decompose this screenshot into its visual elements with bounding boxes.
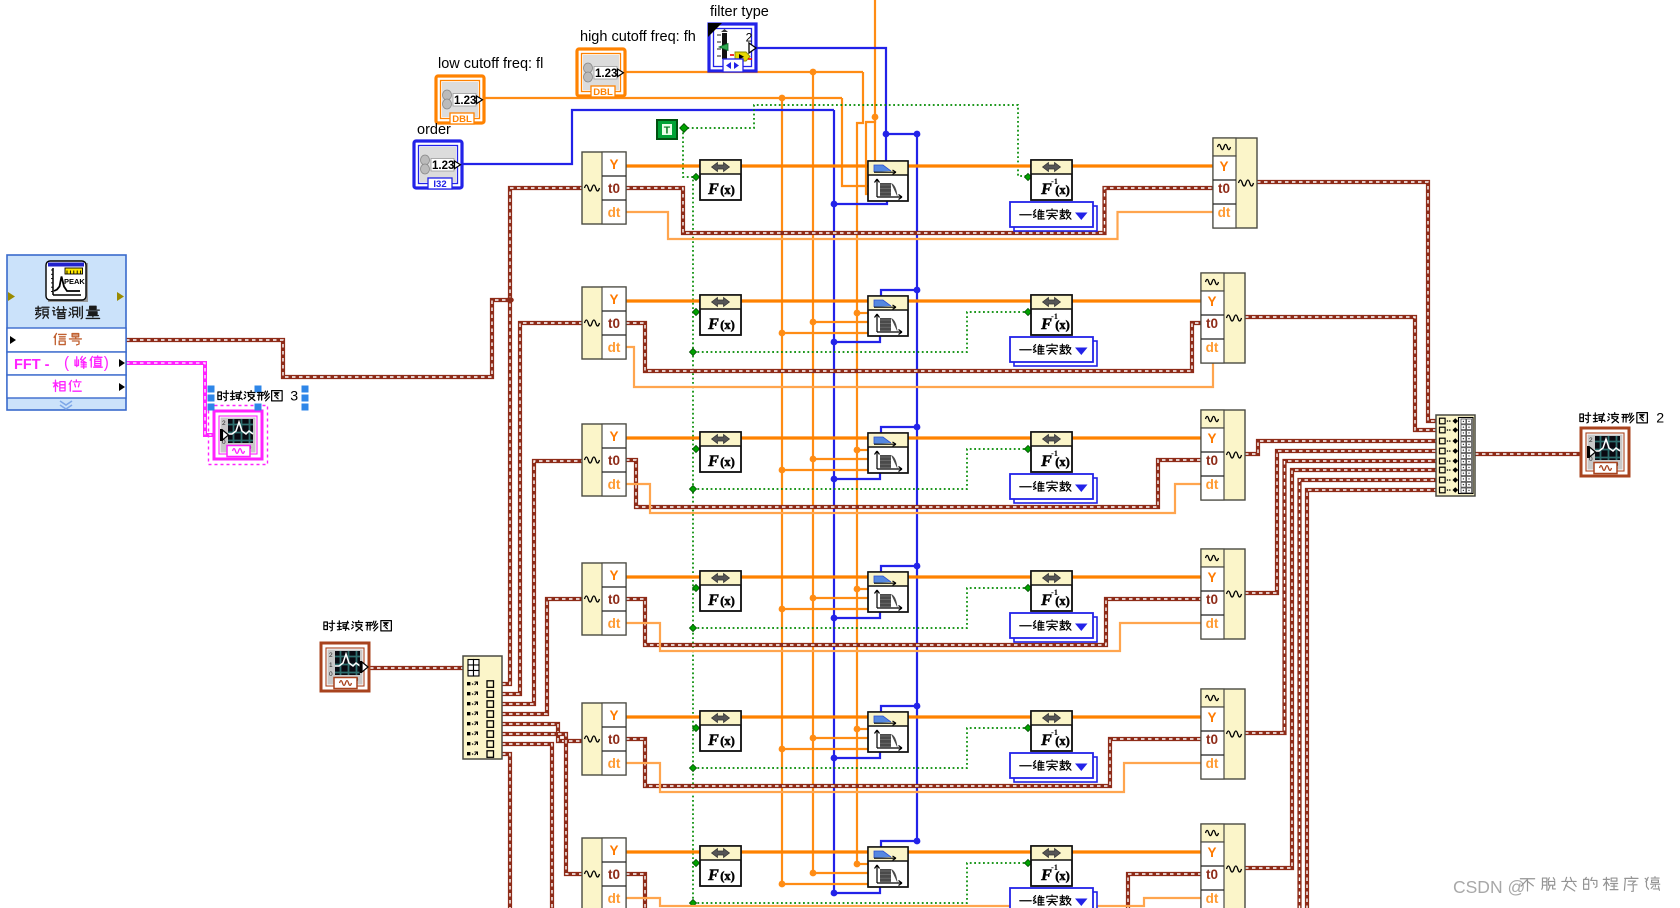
svg-text:Y: Y: [1219, 159, 1228, 174]
svg-text:-1: -1: [1051, 176, 1058, 186]
svg-text:dt: dt: [608, 477, 621, 492]
svg-text:low cutoff freq: fl: low cutoff freq: fl: [438, 56, 543, 72]
svg-text:DBL: DBL: [593, 87, 613, 98]
svg-text:Y: Y: [609, 568, 618, 583]
svg-text:(x): (x): [720, 734, 735, 748]
svg-text:Y: Y: [1207, 294, 1216, 309]
svg-text:filter type: filter type: [710, 4, 769, 20]
svg-text:(x): (x): [720, 183, 735, 197]
svg-text:t0: t0: [608, 592, 620, 607]
svg-text:1: 1: [329, 662, 333, 669]
svg-text:1.23: 1.23: [454, 95, 476, 107]
svg-text:Y: Y: [609, 292, 618, 307]
svg-text:Y: Y: [609, 843, 618, 858]
svg-text:t0: t0: [1218, 181, 1230, 196]
svg-text:dt: dt: [1206, 891, 1219, 906]
svg-text:F: F: [707, 867, 719, 884]
svg-text:F: F: [707, 732, 719, 749]
svg-text:dt: dt: [608, 756, 621, 771]
svg-text:-1: -1: [1051, 862, 1058, 872]
svg-text:PEAK: PEAK: [64, 277, 85, 286]
svg-text:-1: -1: [1051, 727, 1058, 737]
svg-text:(x): (x): [720, 455, 735, 469]
svg-text:F: F: [707, 592, 719, 609]
svg-text:Y: Y: [1207, 710, 1216, 725]
svg-text:F: F: [707, 181, 719, 198]
svg-text:Y: Y: [1207, 845, 1216, 860]
svg-text:I32: I32: [433, 179, 446, 190]
svg-text:dt: dt: [608, 340, 621, 355]
svg-text:t0: t0: [608, 181, 620, 196]
svg-text:1.23: 1.23: [595, 68, 617, 80]
svg-text:t0: t0: [608, 732, 620, 747]
svg-text:dt: dt: [608, 891, 621, 906]
svg-text:t0: t0: [1206, 453, 1218, 468]
svg-text:dt: dt: [1218, 205, 1231, 220]
svg-text:CSDN @: CSDN @: [1453, 877, 1525, 897]
svg-text:dt: dt: [1206, 616, 1219, 631]
svg-text:t0: t0: [608, 453, 620, 468]
svg-text:(x): (x): [720, 594, 735, 608]
svg-text:t0: t0: [1206, 316, 1218, 331]
svg-text:high cutoff freq: fh: high cutoff freq: fh: [580, 29, 696, 45]
svg-text:Y: Y: [1207, 570, 1216, 585]
svg-text:DBL: DBL: [452, 114, 472, 125]
svg-text:T: T: [664, 125, 671, 137]
svg-text:t0: t0: [1206, 732, 1218, 747]
svg-text:t0: t0: [608, 867, 620, 882]
svg-text:0: 0: [329, 671, 333, 678]
svg-text:Y: Y: [1207, 431, 1216, 446]
svg-text:1.23: 1.23: [432, 160, 454, 172]
svg-text:2: 2: [1589, 437, 1593, 444]
svg-text:3: 3: [290, 389, 298, 405]
svg-text:FFT -: FFT -: [14, 357, 50, 373]
svg-text:(x): (x): [720, 869, 735, 883]
svg-text:Y: Y: [609, 429, 618, 444]
svg-text:(x): (x): [720, 318, 735, 332]
svg-text:t0: t0: [1206, 867, 1218, 882]
svg-text:Y: Y: [609, 157, 618, 172]
svg-text:2: 2: [1656, 411, 1664, 427]
svg-text:-1: -1: [1051, 448, 1058, 458]
svg-text:dt: dt: [608, 205, 621, 220]
svg-text:-1: -1: [1051, 587, 1058, 597]
svg-text:Y: Y: [609, 708, 618, 723]
svg-text:(: (: [64, 354, 69, 371]
svg-text:F: F: [707, 453, 719, 470]
svg-text:2: 2: [222, 420, 226, 427]
svg-text:dt: dt: [1206, 756, 1219, 771]
svg-text:): ): [104, 354, 109, 371]
svg-text:t0: t0: [608, 316, 620, 331]
svg-text:2: 2: [329, 652, 333, 659]
svg-text:dt: dt: [1206, 340, 1219, 355]
svg-text:F: F: [707, 316, 719, 333]
svg-text:t0: t0: [1206, 592, 1218, 607]
svg-text:dt: dt: [1206, 477, 1219, 492]
svg-text:dt: dt: [608, 616, 621, 631]
svg-text:-1: -1: [1051, 311, 1058, 321]
svg-text:order: order: [417, 122, 451, 138]
